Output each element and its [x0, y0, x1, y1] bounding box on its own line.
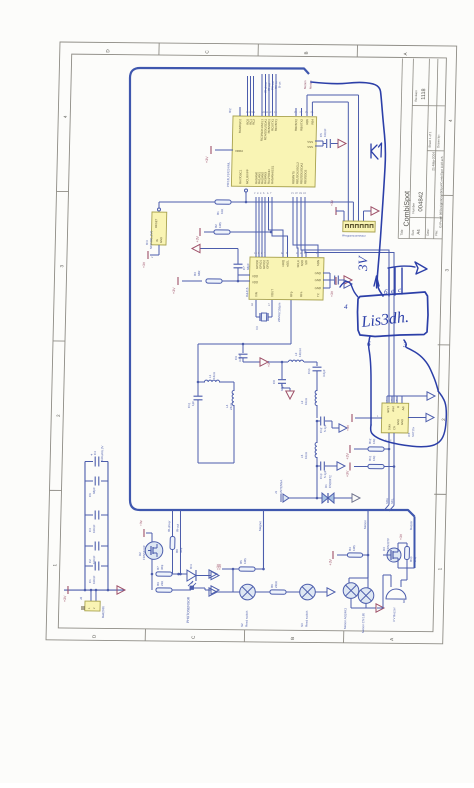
svg-text:PHOTOSENSOR: PHOTOSENSOR: [186, 596, 191, 623]
VSS pins to capacitor C5 and ground: [315, 140, 323, 142]
blue enclosure box around MCU and RF circuit: [120, 67, 425, 517]
svg-text:MCLR/VPP: MCLR/VPP: [245, 169, 249, 184]
svg-text:GND: GND: [159, 237, 163, 243]
svg-text:1pF: 1pF: [191, 401, 195, 406]
resistor R6 220K: [270, 590, 286, 594]
capacitor C1 100nF: [85, 565, 93, 567]
svg-text:24nH: 24nH: [229, 403, 233, 410]
svg-text:RB6/TX2: RB6/TX2: [299, 119, 303, 131]
svg-text:SDI: SDI: [304, 260, 308, 265]
ground arrow at C7: [192, 244, 200, 252]
RF GND pins to cap and ground arrow: [323, 272, 330, 274]
svg-text:RB4: RB4: [310, 119, 314, 125]
power port +3V at R2: [199, 228, 201, 236]
power port arrow at C12: [339, 424, 347, 432]
svg-text:FDN5618P: FDN5618P: [142, 545, 146, 560]
antenna J1 ANTENNA: [289, 497, 317, 500]
svg-text:SHT15x: SHT15x: [411, 426, 415, 437]
svg-text:100nF: 100nF: [323, 128, 327, 137]
hand drawn K1 annotation: [370, 144, 373, 158]
svg-text:IC4: IC4: [189, 564, 193, 569]
svg-text:X3: X3: [255, 326, 259, 330]
svg-text:IR-driver: IR-driver: [167, 521, 171, 532]
svg-text:Motion AG24K3: Motion AG24K3: [343, 608, 347, 629]
svg-text:Motion: Motion: [303, 80, 307, 89]
svg-text:+3V: +3V: [328, 558, 332, 565]
wire RA5 to nSEL: [271, 197, 289, 257]
svg-text:+3V: +3V: [139, 519, 143, 526]
VDDA wire to +3V: [215, 149, 233, 151]
hand drawn arrows into Lis3dh: [374, 276, 379, 286]
programming header J3: [362, 211, 364, 221]
wire reset line: [159, 201, 215, 202]
svg-text:+3V: +3V: [267, 360, 271, 367]
crystal X3 26MHz/10ppm: [255, 300, 258, 317]
svg-text:68pF: 68pF: [246, 263, 250, 270]
svg-text:+3V: +3V: [142, 261, 146, 268]
svg-text:B-on: B-on: [278, 81, 282, 88]
svg-text:100nF: 100nF: [92, 524, 96, 533]
svg-text:IC2: IC2: [228, 108, 232, 113]
RF transceiver IC1 IA4415: [249, 257, 324, 300]
ESD diode D1 ESD8472: [316, 497, 319, 500]
svg-text:Clk: Clk: [392, 425, 396, 430]
IC5 nRST pin wire to +3V: [355, 417, 382, 420]
svg-text:+3V: +3V: [195, 235, 199, 242]
svg-text:A4: A4: [416, 229, 421, 235]
svg-text:GND: GND: [315, 271, 321, 275]
wire D2 down to resistor rows: [151, 559, 152, 590]
capacitor C13 5.1pF: [316, 465, 319, 468]
lamp S3 Reed switch: [300, 584, 316, 600]
svg-text:Alert: Alert: [391, 406, 395, 412]
svg-text:SCL: SCL: [390, 498, 394, 504]
MOSFET D3 FDN337P: [387, 548, 401, 562]
wire left leg of loop: [197, 344, 199, 396]
svg-text:J1: J1: [274, 490, 278, 494]
inductor L3 120nH: [268, 361, 288, 363]
wire Magnet from enclosure: [262, 510, 265, 569]
svg-text:10nH: 10nH: [304, 452, 308, 459]
capacitor C6 68pF: [85, 480, 93, 482]
svg-text:220K: 220K: [274, 581, 278, 588]
svg-text:CombiSpot: CombiSpot: [401, 191, 411, 227]
ground arrow under motion lamps: [350, 598, 352, 608]
svg-text:NCP300_2V0: NCP300_2V0: [149, 230, 153, 249]
svg-text:Batt2030: Batt2030: [101, 606, 105, 618]
svg-text:Motion: Motion: [363, 520, 367, 529]
svg-text:RFn: RFn: [299, 291, 303, 297]
wires RA0-RA3 to RF GPIO pins: [255, 197, 258, 257]
svg-text:B1: B1: [402, 599, 406, 603]
svg-text:Date:: Date:: [426, 228, 430, 235]
power arrow near Lis3dh: [344, 280, 352, 288]
ground arrow at J3: [371, 207, 379, 215]
MCLR pin wire with bubble: [244, 189, 247, 192]
svg-text:Title: Title: [400, 229, 404, 235]
svg-text:1118: 1118: [421, 88, 427, 99]
svg-text:3V: 3V: [355, 254, 370, 272]
svg-text:ANTENNA: ANTENNA: [279, 480, 283, 494]
buzzer B1 3V Buzzer: [397, 562, 399, 568]
power port +3V feeding RF VDD: [177, 277, 179, 285]
svg-text:+3V: +3V: [346, 470, 350, 477]
microcontroller IC2 PIC18LF2423-I/ML: [231, 116, 316, 187]
svg-text:Buzzer: Buzzer: [409, 521, 413, 530]
svg-text:RB7/RX2: RB7/RX2: [294, 119, 298, 131]
zone letters and numbers: [51, 48, 455, 641]
svg-text:PIC18LF2423-I/ML: PIC18LF2423-I/ML: [226, 161, 231, 187]
svg-text:RA7/OSC1: RA7/OSC1: [238, 169, 242, 184]
resistor R10 1K9: [406, 543, 408, 546]
wire SDN: [292, 197, 320, 257]
svg-text:+3V: +3V: [205, 156, 209, 163]
svg-text:5.1pF: 5.1pF: [323, 424, 327, 432]
svg-text:XOUT: XOUT: [270, 289, 274, 297]
svg-text:100nF: 100nF: [92, 575, 96, 584]
svg-text:22K: 22K: [160, 581, 164, 586]
power port +3V at R4: [332, 551, 334, 559]
svg-text:RA6/OSC2: RA6/OSC2: [238, 119, 242, 134]
power port +3V at battery rail: [67, 586, 69, 594]
svg-text:+3V: +3V: [216, 563, 220, 570]
svg-text:+3V: +3V: [172, 287, 176, 294]
capacitor C12 5.1pF: [316, 420, 319, 423]
svg-text:C4: C4: [93, 451, 97, 455]
svg-text:68pF: 68pF: [280, 384, 284, 391]
pin numbers on IC2: [244, 110, 314, 195]
wires RB1 RB2 to SCLK SDO SDI: [296, 197, 300, 257]
inductor L2 10nH: [316, 371, 319, 391]
svg-text:Magnet: Magnet: [258, 521, 262, 531]
svg-text:68pF: 68pF: [92, 487, 96, 494]
resistor R9 22K: [156, 588, 172, 592]
svg-text:RFp: RFp: [289, 291, 293, 297]
title block text: [400, 88, 446, 236]
RF pin numbers: [254, 251, 318, 255]
wire Buzzer from enclosure corner: [413, 517, 415, 568]
resistor R12 1K0: [349, 445, 351, 453]
svg-text:VSS: VSS: [307, 140, 313, 144]
svg-text:SDA: SDA: [385, 498, 389, 504]
resistor R1 10K: [215, 200, 231, 204]
svg-text:3.6pF: 3.6pF: [238, 354, 242, 362]
svg-text:RA5/AN4/SS1: RA5/AN4/SS1: [270, 165, 274, 184]
hand drawn power arrowhead: [415, 262, 427, 274]
hand drawn wire from Lis3dh bottom right: [403, 340, 439, 390]
IC5 right pin wire to arrow: [408, 416, 426, 418]
svg-text:5.1pF: 5.1pF: [323, 470, 327, 478]
svg-text:Data: Data: [387, 424, 391, 430]
svg-text:Reed switch: Reed switch: [305, 610, 309, 627]
svg-text:68R: 68R: [197, 270, 201, 276]
svg-text:120nH: 120nH: [298, 348, 302, 357]
svg-text:3 V Buzzer: 3 V Buzzer: [392, 607, 396, 622]
svg-text:10K: 10K: [220, 209, 224, 214]
wires from IC2 RC pins to net labels: [247, 76, 249, 116]
svg-text:+3V: +3V: [346, 424, 350, 431]
svg-text:VDD: VDD: [252, 274, 258, 278]
capacitor C10 3.6pF: [316, 362, 318, 366]
svg-text:Motion: Motion: [309, 80, 313, 89]
humidity sensor IC5 SHT15: [381, 403, 408, 433]
svg-text:GND: GND: [400, 419, 404, 425]
lamp S2 Reed switch: [209, 588, 217, 596]
svg-text:IR-out: IR-out: [175, 524, 179, 532]
svg-text:1K9: 1K9: [413, 556, 417, 562]
svg-text:RESET: RESET: [154, 218, 158, 228]
svg-text:VDDA: VDDA: [235, 149, 243, 153]
svg-text:3K9: 3K9: [179, 547, 183, 553]
inductor L5 10nH: [316, 421, 317, 443]
loop bottom wire: [198, 462, 234, 465]
hand drawn wire at Lis3dh left pin: [340, 281, 359, 297]
svg-text:Sheet 1 of 1: Sheet 1 of 1: [428, 131, 432, 147]
hand drawn box Lis3dh: [357, 291, 429, 337]
resistor R8 3K9: [170, 537, 175, 550]
svg-text:Size: Size: [411, 229, 415, 235]
power port +3V at J3: [335, 207, 337, 215]
svg-text:J2: J2: [79, 596, 83, 600]
svg-text:+3V: +3V: [330, 199, 334, 206]
sheet outer border frame: [46, 42, 457, 644]
svg-text:B: B: [304, 51, 309, 54]
svg-text:nSEL: nSEL: [286, 260, 290, 267]
svg-text:1K0: 1K0: [372, 455, 376, 461]
svg-text:S2: S2: [240, 623, 244, 627]
power port +3V at D2: [151, 533, 153, 542]
wire from RF chip RFp down to matching loop: [290, 300, 292, 344]
inductor L1 16nH: [197, 381, 200, 384]
svg-text:10nH: 10nH: [304, 398, 308, 405]
svg-text:+3V: +3V: [346, 452, 350, 459]
IC5 pin numbers: [376, 399, 403, 442]
svg-text:Adr: Adr: [401, 406, 405, 410]
power port arrow +3V at C9: [260, 358, 268, 366]
hand drawn scribble loop around IC5: [370, 390, 447, 447]
svg-text:RC7/RX1: RC7/RX1: [274, 119, 278, 132]
resistor R11 1K0: [349, 463, 351, 471]
svg-text:nRST: nRST: [386, 406, 390, 413]
svg-text:fProgramconnector: fProgramconnector: [342, 234, 366, 238]
hand drawn wire from Lis3dh bottom to IC5 loop: [367, 336, 373, 425]
svg-text:R: R: [396, 406, 400, 408]
resistor R5 1M5: [239, 567, 255, 571]
svg-text:GND: GND: [315, 286, 321, 290]
lamp Motion AG24K3: [349, 577, 368, 579]
svg-text:ESD8472: ESD8472: [328, 475, 332, 488]
svg-text:B: B: [290, 637, 295, 640]
capacitor C3 100nF: [85, 514, 93, 516]
phototransistor D2 FDN5618P: [145, 542, 163, 560]
svg-text:C8: C8: [272, 380, 276, 384]
stub wires RB7 RB6: [295, 108, 297, 116]
lamp Motion Chl 180: [367, 578, 369, 588]
svg-text:S3: S3: [300, 623, 304, 627]
svg-text:File:: File:: [434, 230, 438, 236]
power port arrows at IC4: [211, 571, 219, 579]
svg-text:3K9: 3K9: [160, 564, 164, 570]
svg-text:GPIO3: GPIO3: [266, 260, 270, 269]
wire Motion from enclosure: [366, 510, 369, 578]
IR receiver IC4: [187, 570, 196, 581]
svg-text:RB3/SDO2: RB3/SDO2: [303, 169, 307, 184]
capacitor C8 68pF: [281, 362, 284, 379]
svg-text:3.6pF: 3.6pF: [322, 369, 326, 377]
svg-text:100uF/6.3V: 100uF/6.3V: [100, 446, 104, 461]
svg-text:26MHz/10ppm: 26MHz/10ppm: [277, 302, 281, 322]
svg-text:004842: 004842: [418, 191, 424, 212]
svg-text:+3V: +3V: [330, 290, 334, 297]
svg-text:FDN337P: FDN337P: [386, 538, 390, 551]
svg-text:1M5: 1M5: [218, 222, 222, 228]
wires from RB5 RB4 to programming header: [306, 95, 309, 116]
hand drawn enclosure right side pen line: [306, 82, 388, 296]
svg-text:1M5: 1M5: [352, 545, 356, 551]
power port +3V at D3: [397, 543, 399, 548]
battery connector J2 Batt2030: [84, 589, 87, 592]
svg-text:TX: TX: [316, 293, 320, 297]
svg-text:Drawn by:: Drawn by:: [436, 134, 440, 148]
wires SDA SCL from IC2 RB2 RB3 to IC5: [296, 197, 395, 433]
svg-text:+3V: +3V: [63, 595, 67, 602]
svg-text:SDN: SDN: [316, 260, 320, 266]
power port +3V near Lis3dh: [335, 277, 337, 285]
capacitor C7 68pF decoupling: [237, 268, 239, 275]
wire IR-driver from enclosure: [172, 510, 173, 536]
svg-text:RB5: RB5: [305, 119, 309, 125]
ground arrow at battery rail: [108, 589, 117, 591]
inductor L4 24nH: [233, 382, 235, 391]
svg-text:e: e: [391, 287, 394, 295]
voltage detector IC3 NCP300_2V0: [151, 212, 167, 245]
capacitor C11 1pF: [193, 395, 202, 397]
svg-text:C10: C10: [307, 368, 311, 374]
capacitor C4 100uF/6.3V: [85, 460, 93, 462]
svg-text:1K0: 1K0: [372, 438, 376, 444]
power port arrow at C13: [337, 462, 345, 470]
resistor R4 1M5: [347, 553, 362, 557]
svg-text:16nH: 16nH: [212, 372, 216, 379]
resistor R3 68R: [206, 279, 222, 283]
resistor R7 3K9: [151, 573, 154, 576]
wire RA6/OSC2 stub: [239, 107, 241, 116]
wires IC5 Data Clk down to SDA SCL labels: [387, 433, 390, 504]
svg-text:Motion Chl 180: Motion Chl 180: [361, 613, 365, 633]
title block: [398, 58, 446, 238]
wire RA4 to nIRQ: [267, 197, 284, 257]
svg-text:1M5: 1M5: [243, 558, 247, 564]
capacitor C9 3.6pF: [242, 343, 245, 346]
capacitor C2 100nF: [85, 545, 93, 547]
svg-text:Number: Number: [411, 203, 415, 214]
hand drawn wires Lis3dh top pins to power arrow: [388, 269, 389, 296]
svg-text:RC2: RC2: [252, 119, 256, 125]
resistor R2 1M5: [214, 230, 230, 234]
svg-text:VDD: VDD: [252, 280, 258, 284]
svg-text:Reed switch: Reed switch: [244, 610, 248, 627]
svg-text:+3V: +3V: [399, 533, 403, 540]
IC5 top pins to ground arrow: [386, 396, 388, 403]
svg-text:XIN: XIN: [254, 292, 258, 297]
svg-text:IA4415: IA4415: [245, 287, 249, 297]
svg-text:3: 3: [402, 341, 407, 349]
wire IR-out from enclosure: [179, 510, 182, 574]
svg-text:21-May-2004: 21-May-2004: [431, 152, 435, 171]
wire R5 row to lamp row: [232, 569, 233, 592]
svg-text:Revision: Revision: [414, 90, 418, 102]
IC3 ground pin to +3V: [158, 245, 160, 255]
svg-text:GND: GND: [315, 278, 321, 282]
svg-text:VSS: VSS: [307, 145, 313, 149]
power rail wires: [82, 462, 88, 591]
